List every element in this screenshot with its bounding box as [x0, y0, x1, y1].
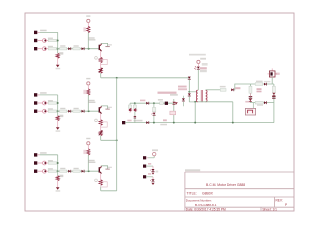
transistor Q2	[88, 100, 95, 101]
junction	[57, 162, 59, 164]
wire	[134, 103, 136, 105]
relay U1 vertical	[173, 99, 175, 123]
wire	[197, 70, 199, 90]
resistor R3e	[83, 150, 85, 154]
label circle	[95, 179, 98, 182]
ground	[56, 65, 60, 68]
svg-text:P: P	[285, 203, 287, 207]
junction	[232, 122, 234, 124]
connector J1 pin 1	[34, 31, 37, 34]
resistor R1f	[99, 57, 102, 63]
junction	[57, 110, 59, 112]
resistor R2b	[48, 108, 53, 109]
resistor R42	[255, 101, 263, 104]
LED leg3	[153, 103, 155, 107]
connector J1 pin 3	[34, 47, 37, 50]
svg-text:REV:: REV:	[276, 199, 283, 203]
connector J3 pin 2	[34, 161, 37, 164]
wire	[57, 121, 59, 127]
resistor R41	[249, 86, 252, 93]
junction	[194, 101, 196, 103]
diode D2c	[68, 110, 70, 113]
fuse F1	[271, 68, 273, 71]
wire long vertical	[116, 78, 118, 191]
ground	[56, 127, 60, 130]
resistor R1h	[59, 52, 63, 54]
frame border	[25, 13, 294, 211]
connector J3 pin 1	[34, 153, 37, 156]
resistor R3d	[74, 168, 79, 169]
wire secondary top	[206, 89, 221, 91]
wire collector	[101, 43, 107, 46]
svg-text:B.C.M. Motor Driver G888: B.C.M. Motor Driver G888	[206, 183, 245, 187]
diode on bus	[146, 121, 148, 124]
gray label	[170, 94, 178, 96]
relay K2 label	[245, 101, 250, 103]
connector X1	[143, 156, 146, 159]
connector X2	[143, 165, 146, 168]
resistor R2d	[74, 108, 79, 109]
svg-text:Sheet: 1/1: Sheet: 1/1	[262, 208, 277, 212]
svg-text:B-CS-G888-8-1: B-CS-G888-8-1	[195, 203, 217, 207]
ground	[152, 173, 155, 175]
diode on relay leg	[173, 102, 176, 104]
label circle	[95, 57, 98, 60]
diode D3b	[43, 169, 47, 173]
wire	[87, 23, 89, 27]
diode D3c	[68, 170, 70, 173]
red label center	[257, 88, 262, 90]
resistor R2f	[99, 120, 102, 126]
wire input bus	[57, 32, 59, 53]
junction base node	[88, 48, 90, 50]
wire	[87, 95, 89, 111]
capacitor C1	[134, 115, 136, 117]
diode D1d	[82, 47, 84, 50]
diode D1a	[43, 39, 47, 43]
wire emitter	[100, 51, 102, 57]
svg-text:TITLE:: TITLE:	[187, 192, 197, 196]
wire center top	[130, 102, 174, 104]
wire	[189, 101, 197, 103]
red label G5LE	[158, 92, 177, 94]
ground	[56, 187, 60, 190]
junction	[116, 77, 118, 79]
diode on top wire	[146, 102, 148, 105]
wire	[189, 91, 197, 93]
wire collector	[101, 166, 107, 169]
gray note above title block	[185, 169, 200, 171]
wire loop	[101, 122, 108, 127]
capacitor C2 (dark)	[165, 102, 168, 105]
wire bridge bottom	[250, 102, 274, 104]
junction	[188, 91, 190, 93]
wire emitter	[100, 174, 102, 180]
resistor R2c	[60, 108, 65, 109]
ground	[152, 183, 155, 185]
resistor R30	[220, 86, 226, 88]
red label TR	[178, 86, 187, 88]
resistor R1b	[48, 46, 53, 47]
capacitor C42	[272, 96, 276, 98]
resistor R2a	[48, 100, 53, 101]
junction	[57, 48, 59, 50]
junction	[116, 139, 118, 141]
supply bar	[105, 108, 109, 110]
junction	[153, 122, 155, 124]
supply +5V	[86, 138, 90, 139]
wire loop	[101, 59, 108, 64]
wire base row	[57, 48, 100, 50]
resistor leg2	[133, 105, 136, 108]
wire bridge right	[273, 84, 275, 123]
transistor Q1	[88, 37, 95, 38]
resistor R3c	[60, 168, 65, 169]
junction base node	[88, 170, 90, 172]
wire input bus	[57, 95, 59, 116]
transformer T1	[196, 90, 197, 102]
wire	[57, 58, 59, 64]
wire	[100, 73, 102, 78]
diode D42	[264, 101, 266, 104]
wire primary bottom	[198, 101, 233, 103]
wire emitter tail ch2	[101, 139, 117, 141]
transistor Q3	[88, 160, 95, 161]
connector J1 pin 2	[34, 39, 37, 42]
connector J2 pin 3	[34, 110, 37, 113]
connector X3	[143, 175, 146, 178]
wire up to bridge	[234, 84, 250, 90]
connector GND pad	[122, 121, 125, 124]
junction	[57, 40, 59, 42]
junction	[153, 102, 155, 104]
svg-text:G8B0X: G8B0X	[202, 192, 214, 196]
wire collector	[101, 106, 107, 109]
wire	[100, 187, 102, 191]
diode D3a	[43, 161, 47, 165]
wire input bus	[57, 155, 59, 176]
gray label	[160, 124, 167, 126]
wire net IN1A	[40, 31, 58, 33]
LED X3	[152, 177, 154, 179]
wire	[100, 136, 102, 141]
junction base node	[88, 110, 90, 112]
supply bar	[105, 168, 109, 170]
resistor leg1	[129, 103, 131, 105]
svg-text:Date: 6/30/2017 4:25:35 PM: Date: 6/30/2017 4:25:35 PM	[186, 208, 226, 212]
diode D40	[264, 83, 266, 86]
ground mark	[175, 102, 178, 104]
resistor R3h	[59, 175, 63, 177]
relay box	[170, 111, 176, 115]
wire	[87, 155, 89, 171]
title block outline	[185, 172, 294, 211]
resistor R2h	[59, 115, 63, 117]
connector J2 pin 2	[34, 101, 37, 104]
wire transformer right down	[232, 102, 234, 123]
diode D20	[188, 77, 191, 79]
resistor R3a	[48, 160, 53, 161]
junction	[57, 170, 59, 172]
wire stub	[252, 103, 254, 109]
supply +5V	[86, 15, 90, 16]
diode D1b	[43, 47, 47, 51]
resistor R1c	[60, 45, 65, 46]
capacitor C41	[249, 96, 253, 98]
connector J2 pin 1	[34, 93, 37, 96]
resistor R3f	[99, 180, 102, 185]
wire	[87, 33, 89, 49]
resistor R3b	[48, 168, 53, 169]
diode D2b	[43, 109, 47, 113]
resistor on wire	[160, 102, 164, 105]
supply bar	[105, 46, 109, 48]
resistor R1d	[74, 45, 79, 46]
junction	[57, 102, 59, 104]
resistor R43	[272, 86, 275, 93]
wire emitter tail ch3	[101, 190, 117, 192]
red label MOC	[163, 119, 167, 121]
junction	[194, 122, 196, 124]
resistor R40	[256, 81, 263, 83]
trimmer R1g	[100, 63, 102, 68]
wire net IN3A	[40, 154, 58, 156]
wire	[87, 145, 89, 149]
wire bottom bus	[125, 122, 274, 124]
relay K2 box	[245, 108, 255, 115]
junction	[134, 102, 136, 104]
diode D21	[188, 93, 191, 95]
wire emitter bus ch1	[101, 77, 190, 79]
wire	[129, 111, 131, 113]
supply +5V circle	[200, 58, 206, 60]
resistor R1a	[48, 38, 53, 39]
wire base row	[57, 110, 100, 112]
gray label top	[189, 54, 206, 56]
wire emitter	[100, 114, 102, 120]
LED X2	[152, 166, 154, 169]
red label	[140, 100, 145, 102]
label circle	[95, 119, 98, 122]
junction	[173, 122, 175, 124]
connector J3 pin 3	[34, 170, 37, 173]
diode D2d	[82, 110, 84, 113]
wire loop	[101, 182, 108, 187]
trimmer R2g	[100, 125, 102, 130]
wire base row	[57, 170, 100, 172]
resistor R2e	[83, 90, 85, 94]
diode D2a	[43, 101, 47, 105]
wire	[87, 85, 89, 89]
diode D30	[231, 88, 233, 91]
supply +5V	[86, 78, 90, 79]
diode D22	[182, 96, 184, 98]
supply circle	[153, 152, 156, 155]
wire bridge left	[249, 84, 251, 103]
wire net IN2A	[40, 94, 58, 96]
LED1	[197, 67, 200, 69]
wire bridge top	[250, 83, 274, 85]
diode D3d	[82, 170, 84, 173]
wire	[197, 64, 199, 67]
diode D1c	[68, 47, 70, 50]
wire	[57, 181, 59, 187]
resistor R1e	[83, 27, 85, 31]
